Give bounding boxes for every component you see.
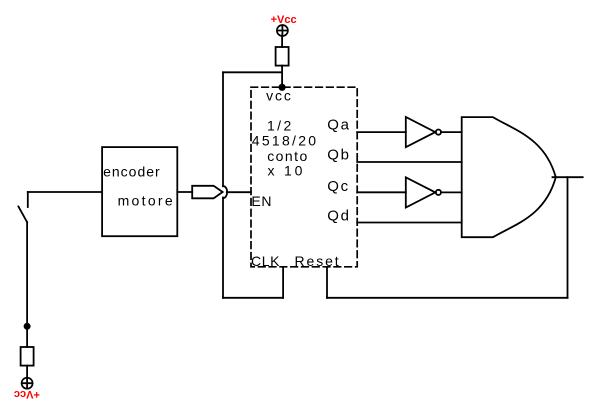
svg-text:Qd: Qd <box>327 208 350 225</box>
svg-text:x 10: x 10 <box>268 162 306 178</box>
power +Vcc bottom symbol <box>22 378 33 389</box>
svg-text:+Vcc: +Vcc <box>271 14 297 26</box>
svg-text:vcc: vcc <box>266 88 293 104</box>
switch S1 blade <box>18 207 27 223</box>
wire Qd <box>357 222 462 224</box>
resistor R2 <box>21 347 34 366</box>
wire <box>441 191 462 193</box>
wire hop crossover <box>223 186 227 198</box>
svg-text:EN: EN <box>251 193 272 209</box>
AND gate U4 <box>462 117 556 237</box>
wire <box>26 366 28 378</box>
svg-text:Qb: Qb <box>327 147 350 164</box>
svg-text:1/2: 1/2 <box>267 118 294 134</box>
wire <box>28 191 102 193</box>
wire Qb <box>357 161 462 163</box>
wire <box>222 198 224 298</box>
wire <box>441 131 462 133</box>
counter U1 4518/20 dashed box <box>251 87 357 267</box>
wire <box>177 191 192 193</box>
wire output <box>553 176 583 178</box>
resistor R1 <box>276 47 289 66</box>
buffer arrow A1 <box>192 186 222 199</box>
power +Vcc top symbol <box>277 25 288 36</box>
svg-text:Qc: Qc <box>327 178 349 195</box>
wire <box>281 66 283 87</box>
wire Reset riser <box>326 267 328 298</box>
svg-text:motore: motore <box>118 192 175 208</box>
node junction dot <box>25 324 30 329</box>
inverter U2 <box>406 117 436 147</box>
wire <box>327 297 568 299</box>
wire <box>26 222 28 347</box>
wire <box>223 71 282 73</box>
wire <box>223 297 283 299</box>
wire CLK riser <box>282 267 284 298</box>
wire feedback <box>567 177 569 298</box>
svg-text:+Vcc: +Vcc <box>14 388 40 400</box>
wire <box>281 36 283 47</box>
wire Qa <box>357 131 406 133</box>
switch S1 <box>27 192 29 207</box>
wire Qc <box>357 191 406 193</box>
encoder block <box>102 147 177 236</box>
svg-text:encoder: encoder <box>103 164 161 180</box>
inverter U3 <box>406 177 436 207</box>
svg-text:Reset: Reset <box>295 253 341 269</box>
wire <box>222 72 224 186</box>
node VCC junction <box>279 85 284 90</box>
svg-text:Qa: Qa <box>327 117 350 134</box>
svg-text:4518/20: 4518/20 <box>252 133 319 149</box>
wire EN <box>227 191 251 193</box>
svg-text:CLK: CLK <box>251 253 280 269</box>
